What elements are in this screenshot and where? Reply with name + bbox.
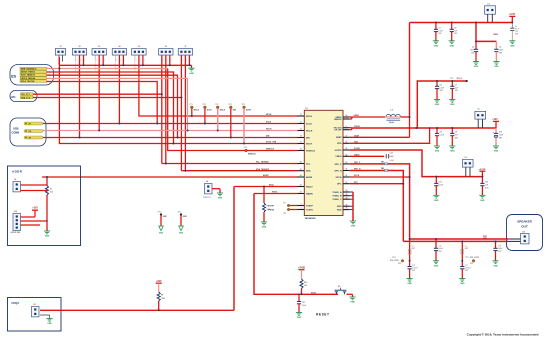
test point TP10 SPK_OUTA [390, 257, 404, 265]
svg-text:1uF: 1uF [455, 135, 458, 137]
test point TP5 DOUT [242, 104, 252, 144]
svg-text:USB: USB [13, 127, 19, 131]
text RESET [316, 313, 330, 317]
power +3V3 in ADDR box [32, 208, 38, 217]
connector J6 3-pin jumper header [159, 46, 173, 55]
connector J3 3-pin jumper header [92, 46, 106, 55]
net label GREG [354, 115, 360, 117]
ADDR group box [8, 166, 81, 246]
svg-text:GND: GND [493, 265, 498, 267]
ground for header rail [188, 68, 194, 75]
connector USB CONN bubble [10, 118, 46, 146]
svg-text:+3V3D: +3V3D [298, 267, 305, 269]
svg-text:10uF: 10uF [499, 135, 503, 137]
wire junction dots [46, 22, 513, 312]
wire J7 pin2 down to SDA line [184, 55, 187, 171]
wire SCLK line [43, 122, 298, 125]
ferrite bead FB1 on SPK_P [381, 162, 388, 165]
test point TP13 chassis ground [178, 211, 188, 234]
capacitor C9 with ground [449, 128, 458, 153]
wire L1 to PVDD riser [401, 116, 410, 119]
svg-text:DOUT_THE: DOUT_THE [266, 142, 277, 144]
svg-text:J6: J6 [165, 46, 167, 48]
wire J13 stubs [478, 119, 482, 128]
unconnected pin ghost wires [76, 61, 182, 71]
svg-text:TP6: TP6 [244, 147, 247, 149]
svg-text:0.1uF: 0.1uF [439, 185, 443, 187]
svg-text:I2C: I2C [11, 95, 15, 99]
test pad TXSTD [268, 208, 298, 215]
wire IRQZ vertical riser [233, 187, 236, 311]
svg-text:SCLK: SCLK [266, 122, 272, 124]
svg-text:C7: C7 [455, 85, 457, 87]
IRQZ group box [8, 298, 62, 332]
capacitor C1 with ground [433, 23, 443, 48]
svg-text:VNN: VNN [493, 34, 498, 36]
power +12V flag [492, 119, 499, 128]
test point TP4 DIN [228, 103, 236, 138]
wire J10 pin1 to +3V3 [21, 216, 36, 219]
power +3.3V flag [509, 14, 516, 22]
wire J12 stubs [488, 14, 493, 22]
svg-text:GND: GND [435, 104, 440, 106]
svg-text:VDD: VDD [337, 143, 342, 145]
svg-text:C6: C6 [440, 85, 442, 87]
svg-text:GND: GND [407, 283, 412, 285]
capacitor C8 with ground [434, 128, 444, 153]
capacitor C15 DNP with ground [407, 265, 418, 285]
svg-text:GND: GND [494, 151, 499, 153]
svg-text:C10: C10 [499, 132, 502, 134]
wire I2S MCLK [47, 82, 158, 124]
svg-text:SPK_P: SPK_P [334, 164, 342, 166]
svg-text:ADDR: ADDR [12, 170, 23, 174]
svg-text:GND: GND [47, 323, 52, 325]
svg-text:GND: GND [350, 302, 355, 304]
svg-text:0.1uF: 0.1uF [440, 135, 444, 137]
wire top PVDD rail [410, 21, 513, 24]
svg-text:TXSTD: TXSTD [306, 209, 313, 211]
net label VDDIO [354, 126, 361, 128]
wire OUTPA [350, 176, 410, 179]
wire J11 pin2 to ground [40, 315, 50, 319]
svg-text:TXSTP: TXSTP [306, 205, 313, 207]
svg-text:C21: C21 [302, 302, 305, 304]
wires header pin3 to ground rail with junctions [84, 55, 190, 65]
wire SPK_N [350, 171, 404, 242]
connector J7 3-pin jumper header [178, 46, 192, 55]
svg-text:100k: 100k [161, 298, 165, 300]
svg-text:+12V: +12V [492, 119, 498, 121]
svg-text:GND: GND [474, 66, 479, 68]
svg-text:GND: GND [510, 45, 515, 47]
wire SPK_P [350, 164, 410, 239]
svg-text:VDDIO: VDDIO [354, 126, 361, 128]
svg-text:GND: GND [189, 73, 194, 75]
capacitor C2 with ground [449, 23, 458, 48]
svg-text:GND: GND [337, 206, 342, 208]
wire J2 pin2 down to DIN line [78, 55, 81, 137]
wire RSTZ line to IC [254, 192, 298, 195]
svg-text:GND: GND [435, 151, 440, 153]
wire J9 pin2 [21, 189, 48, 192]
svg-text:J3: J3 [98, 46, 100, 48]
test point TP2 SCLK [202, 104, 212, 124]
wire J1 to DOUT line [59, 57, 297, 144]
net label SPC [354, 182, 359, 184]
connector I2C bubble [10, 91, 37, 102]
capacitor C21 on reset with ground [296, 294, 306, 319]
wire J14 stubs [466, 167, 470, 176]
connector J14 [462, 156, 473, 167]
svg-text:C9: C9 [455, 132, 457, 134]
capacitor C14 on VNEG [350, 152, 394, 162]
svg-text:J12: J12 [487, 4, 490, 6]
capacitor C10 polarized with ground [493, 128, 503, 153]
svg-text:WCLK: WCLK [220, 110, 226, 112]
svg-text:PGND_C: PGND_C [333, 199, 342, 201]
ground in IRQZ box [46, 319, 52, 326]
net label VNN [493, 34, 498, 36]
net label SPK2 [483, 238, 487, 240]
capacitor C16 DNP with ground [433, 239, 443, 267]
svg-text:J15: J15 [522, 232, 525, 234]
wire OUTNA [350, 182, 404, 185]
svg-text:MCLK: MCLK [194, 110, 200, 112]
svg-text:RSTZ: RSTZ [272, 192, 278, 194]
svg-text:51k: 51k [50, 192, 53, 194]
resistor R7 51k [46, 186, 54, 196]
svg-text:MCLK: MCLK [266, 114, 272, 116]
test point TP9 3V3_A [450, 77, 468, 82]
capacitor C12 with ground [479, 177, 489, 202]
net label SPK1 [483, 236, 487, 238]
wire PVDD riser from top [408, 23, 411, 118]
svg-text:VR_BP: VR_BP [334, 130, 342, 132]
svg-text:GND: GND [179, 233, 184, 235]
power +3V3D flag [479, 169, 486, 177]
connector J12 power input [485, 4, 496, 15]
svg-text:GND: GND [450, 151, 455, 153]
svg-text:SPC: SPC [337, 184, 342, 186]
U1 left pin stubs names numbers [298, 114, 316, 211]
svg-text:+3V3: +3V3 [32, 208, 38, 210]
net label SPCA [354, 174, 360, 177]
net label VNEG [354, 154, 360, 156]
wire WCLK line [43, 129, 298, 131]
svg-text:SPK_N: SPK_N [334, 170, 342, 172]
wire J10 pin2 [21, 220, 48, 223]
resistor R9 pull-down with ground [261, 187, 271, 229]
svg-text:1uF: 1uF [455, 87, 458, 89]
svg-text:C8: C8 [440, 132, 442, 134]
op-amp U1 TAS5805M amplifier IC body [304, 108, 343, 220]
wire GREG to L1 [350, 117, 385, 119]
wire RSTZ vertical riser [254, 194, 338, 295]
svg-text:IRQZ: IRQZ [12, 301, 20, 305]
svg-text:GND: GND [460, 283, 465, 285]
wire ADDR drop [46, 177, 49, 186]
capacitor C4 with ground [493, 41, 503, 68]
U1 right pin stubs names numbers [333, 114, 350, 211]
svg-text:0.1uF: 0.1uF [438, 30, 442, 32]
svg-text:C2: C2 [454, 28, 456, 30]
capacitor C7 with ground [449, 81, 458, 106]
wire VDD from rail [350, 128, 430, 143]
svg-text:RESET: RESET [316, 313, 330, 317]
connector J10 4-pin ADDR SEL [11, 211, 22, 234]
svg-text:10k: 10k [304, 285, 307, 287]
net label VDD [354, 141, 359, 143]
connector J4 3-pin jumper header [112, 45, 126, 55]
svg-text:R8: R8 [161, 295, 163, 297]
svg-text:J9: J9 [14, 179, 16, 181]
svg-text:1uF: 1uF [454, 30, 457, 32]
svg-text:J5: J5 [138, 46, 140, 48]
wire J7 pin1 down to SDA line [180, 55, 183, 171]
svg-text:J11: J11 [33, 304, 36, 306]
inductor L3 DNP on SPK_OUTB [461, 241, 469, 266]
connector J5 3-pin jumper header [132, 46, 146, 55]
capacitor C18 DNP with ground [492, 241, 502, 267]
I2C net labels [21, 93, 34, 100]
svg-text:GND: GND [449, 45, 454, 47]
ground at pushbutton [349, 297, 355, 304]
inductor L2 DNP on SPK_OUTA [408, 239, 416, 267]
test pad TXSTP [268, 202, 298, 207]
svg-text:IRQZ: IRQZ [269, 185, 275, 187]
svg-text:SPK_N: SPK_N [354, 169, 361, 171]
wire J6 pin1 down to SCL line [161, 55, 164, 163]
net label RSTZ [272, 192, 278, 194]
svg-text:J8: J8 [206, 181, 208, 183]
svg-text:0.1uF: 0.1uF [302, 305, 306, 307]
capacitor C5 DNP with ground [509, 23, 519, 48]
svg-text:Copyright © 2016, Texas Instru: Copyright © 2016, Texas Instruments Inco… [467, 332, 539, 336]
svg-text:TXSTP: TXSTP [268, 205, 275, 207]
svg-text:SDOUT_T5805 3: SDOUT_T5805 3 [21, 72, 35, 74]
svg-text:MCLK: MCLK [306, 116, 313, 118]
svg-text:RSTZ: RSTZ [311, 293, 317, 295]
net label RSTZ at reset [311, 293, 317, 295]
connector SPEAKER OUT bubble [507, 215, 543, 251]
svg-text:C11: C11 [439, 182, 442, 184]
resistor R8 IRQZ pull-up with +3V3 [156, 281, 165, 311]
wire I2C SCL [33, 93, 162, 96]
svg-text:VNEG: VNEG [354, 154, 360, 156]
capacitor C17 DNP with ground [459, 265, 471, 285]
wire VDDIO rail [350, 128, 496, 130]
svg-text:GND: GND [159, 233, 164, 235]
wire ground rail under headers [59, 64, 192, 67]
svg-text:OUT: OUT [521, 225, 528, 229]
capacitor C11 with ground [433, 177, 443, 202]
svg-text:VNEG: VNEG [335, 156, 341, 158]
svg-text:TP5: TP5 [242, 104, 245, 106]
svg-text:SCL: SCL [306, 163, 311, 165]
svg-text:PGND_B: PGND_B [333, 196, 342, 198]
svg-text:I2S: I2S [11, 75, 17, 79]
wire J10 pin3 [21, 224, 41, 227]
wire R7 to header [46, 195, 49, 231]
svg-text:R10: R10 [304, 282, 307, 284]
svg-text:J10: J10 [14, 211, 17, 213]
svg-text:1uF: 1uF [485, 185, 488, 187]
USB pin flags [24, 122, 43, 140]
svg-text:GND: GND [218, 198, 223, 200]
wire rail drop to ground [190, 65, 193, 68]
svg-text:TP1: TP1 [189, 104, 192, 106]
svg-text:IOVDD: IOVDD [335, 150, 342, 152]
svg-text:TP9: TP9 [450, 78, 453, 80]
wire SDA line to IC [181, 169, 297, 172]
svg-text:SPK_P: SPK_P [354, 162, 361, 164]
connector J11 in IRQZ box [32, 304, 40, 317]
svg-text:10uH: 10uH [389, 122, 394, 124]
connector J15 speaker terminal [521, 232, 530, 244]
wire VDD branch [476, 23, 496, 42]
svg-text:DOUT: DOUT [306, 143, 313, 145]
ground in ADDR box [44, 231, 50, 238]
wire I2C SDA [33, 96, 181, 99]
svg-text:WCLK: WCLK [266, 129, 272, 131]
svg-text:SPC: SPC [354, 182, 359, 184]
I2S net labels [20, 67, 47, 83]
svg-text:GND: GND [434, 265, 439, 267]
net label SPK_N [354, 169, 361, 171]
svg-text:10uF: 10uF [470, 50, 474, 52]
net label IRQZ [269, 185, 275, 187]
wire I2S SDIN [47, 69, 298, 151]
connector J8 PDMCLK header with ground [203, 181, 223, 199]
svg-text:J13: J13 [477, 108, 480, 110]
inductor L1 10uH [385, 110, 400, 124]
wire speaker rail top [410, 238, 508, 241]
connector J1 2-pin jumper header [55, 46, 65, 55]
header pin stubs [59, 55, 191, 65]
svg-text:DIN: DIN [306, 137, 310, 139]
svg-text:TXSTD: TXSTD [268, 209, 275, 211]
connector J9 2-pin in ADDR box [13, 179, 21, 192]
net label VBAT [354, 134, 360, 137]
test point TP11 SPK_OUTB [465, 257, 480, 265]
wire IRQZ line to IC [234, 185, 298, 188]
resistor R10 reset pull-up with +3V3D [298, 267, 307, 294]
wire speaker stub top [508, 238, 521, 240]
svg-text:GND: GND [262, 227, 267, 229]
wire VBAT to riser [350, 117, 410, 137]
svg-text:PDMCLK: PDMCLK [266, 149, 275, 151]
wire IOVDD to 3V3D rail [350, 150, 483, 177]
wire J5 pin2 down to MCLK line [139, 55, 298, 116]
svg-text:S1: S1 [338, 286, 340, 288]
svg-text:GND: GND [480, 200, 485, 202]
svg-text:SCLK: SCLK [207, 110, 213, 112]
svg-text:C3: C3 [472, 47, 474, 49]
svg-text:VDD: VDD [354, 141, 359, 143]
svg-text:GND: GND [434, 200, 439, 202]
svg-text:TP2: TP2 [202, 104, 205, 106]
wire IRQZ from J11 [40, 309, 234, 312]
svg-text:GND: GND [434, 45, 439, 47]
capacitor C6 with ground [434, 81, 444, 106]
svg-text:CONN: CONN [12, 131, 20, 135]
svg-text:PDMCLK: PDMCLK [248, 154, 256, 156]
test point TP3 WCLK [215, 104, 226, 131]
test point TP12 chassis ground [158, 211, 168, 234]
svg-text:GND: GND [351, 226, 356, 228]
svg-text:GND: GND [45, 236, 50, 238]
svg-text:GND: GND [494, 66, 499, 68]
wire SCL line to IC [162, 162, 298, 165]
svg-text:WCLK: WCLK [306, 130, 313, 132]
svg-text:TP3: TP3 [215, 104, 218, 106]
svg-text:SCLK: SCLK [306, 123, 312, 125]
wire J3 pin2 down to WCLK line [98, 55, 101, 130]
svg-text:+3V3: +3V3 [156, 281, 162, 283]
wire J4 pin2 down to SCLK line [118, 55, 121, 123]
wire I2S SCLK [47, 75, 178, 137]
copyright text [467, 332, 539, 336]
svg-text:J1: J1 [59, 46, 61, 48]
svg-text:C12: C12 [485, 182, 488, 184]
connector J2 3-pin jumper header [72, 46, 86, 55]
wire I2S SDOUT [47, 72, 174, 144]
svg-text:GREG2: GREG2 [334, 119, 342, 121]
wire J9 pin1 [21, 184, 48, 187]
svg-text:PDMCLK: PDMCLK [203, 197, 211, 199]
capacitor C3 with ground [470, 41, 479, 68]
connector I2S bubble [10, 65, 54, 86]
ground for PGND [350, 221, 356, 228]
svg-text:IOVDD: IOVDD [354, 148, 361, 150]
svg-text:J7: J7 [184, 46, 186, 48]
svg-text:10uF: 10uF [499, 50, 503, 52]
wire I2S LRCLK [47, 78, 188, 130]
wire DIN line [43, 136, 298, 139]
test point TP6 PDMCLK [244, 147, 257, 156]
wire speaker stub bottom [508, 240, 521, 242]
wire ADDR line to IC [42, 176, 298, 179]
svg-text:J2: J2 [78, 46, 80, 48]
wire speaker rail bottom [403, 240, 508, 243]
wire PGND bundle to ground [350, 192, 353, 221]
svg-text:SCL_CT 1: SCL_CT 1 [21, 94, 30, 96]
signal name labels [256, 114, 277, 177]
wire J6 pin2 down to SCL line [165, 55, 168, 163]
svg-text:GND: GND [297, 317, 302, 319]
svg-text:PDMCLK: PDMCLK [306, 150, 316, 152]
test point TP1 MCLK [189, 104, 199, 116]
svg-text:GND: GND [450, 104, 455, 106]
net label IOVDD [354, 148, 361, 150]
svg-text:C1: C1 [438, 28, 440, 30]
net label SPK_P [354, 162, 361, 164]
ferrite bead FB2 on SPK_N [381, 168, 388, 171]
svg-text:0.1uF: 0.1uF [440, 87, 444, 89]
pushbutton S1 reset [335, 286, 353, 297]
wire 3V3_A rail [417, 81, 466, 128]
svg-text:R7: R7 [50, 189, 52, 191]
svg-text:SPEAKER: SPEAKER [517, 219, 532, 223]
svg-text:GND: GND [337, 210, 342, 212]
connector J13 [475, 108, 486, 119]
